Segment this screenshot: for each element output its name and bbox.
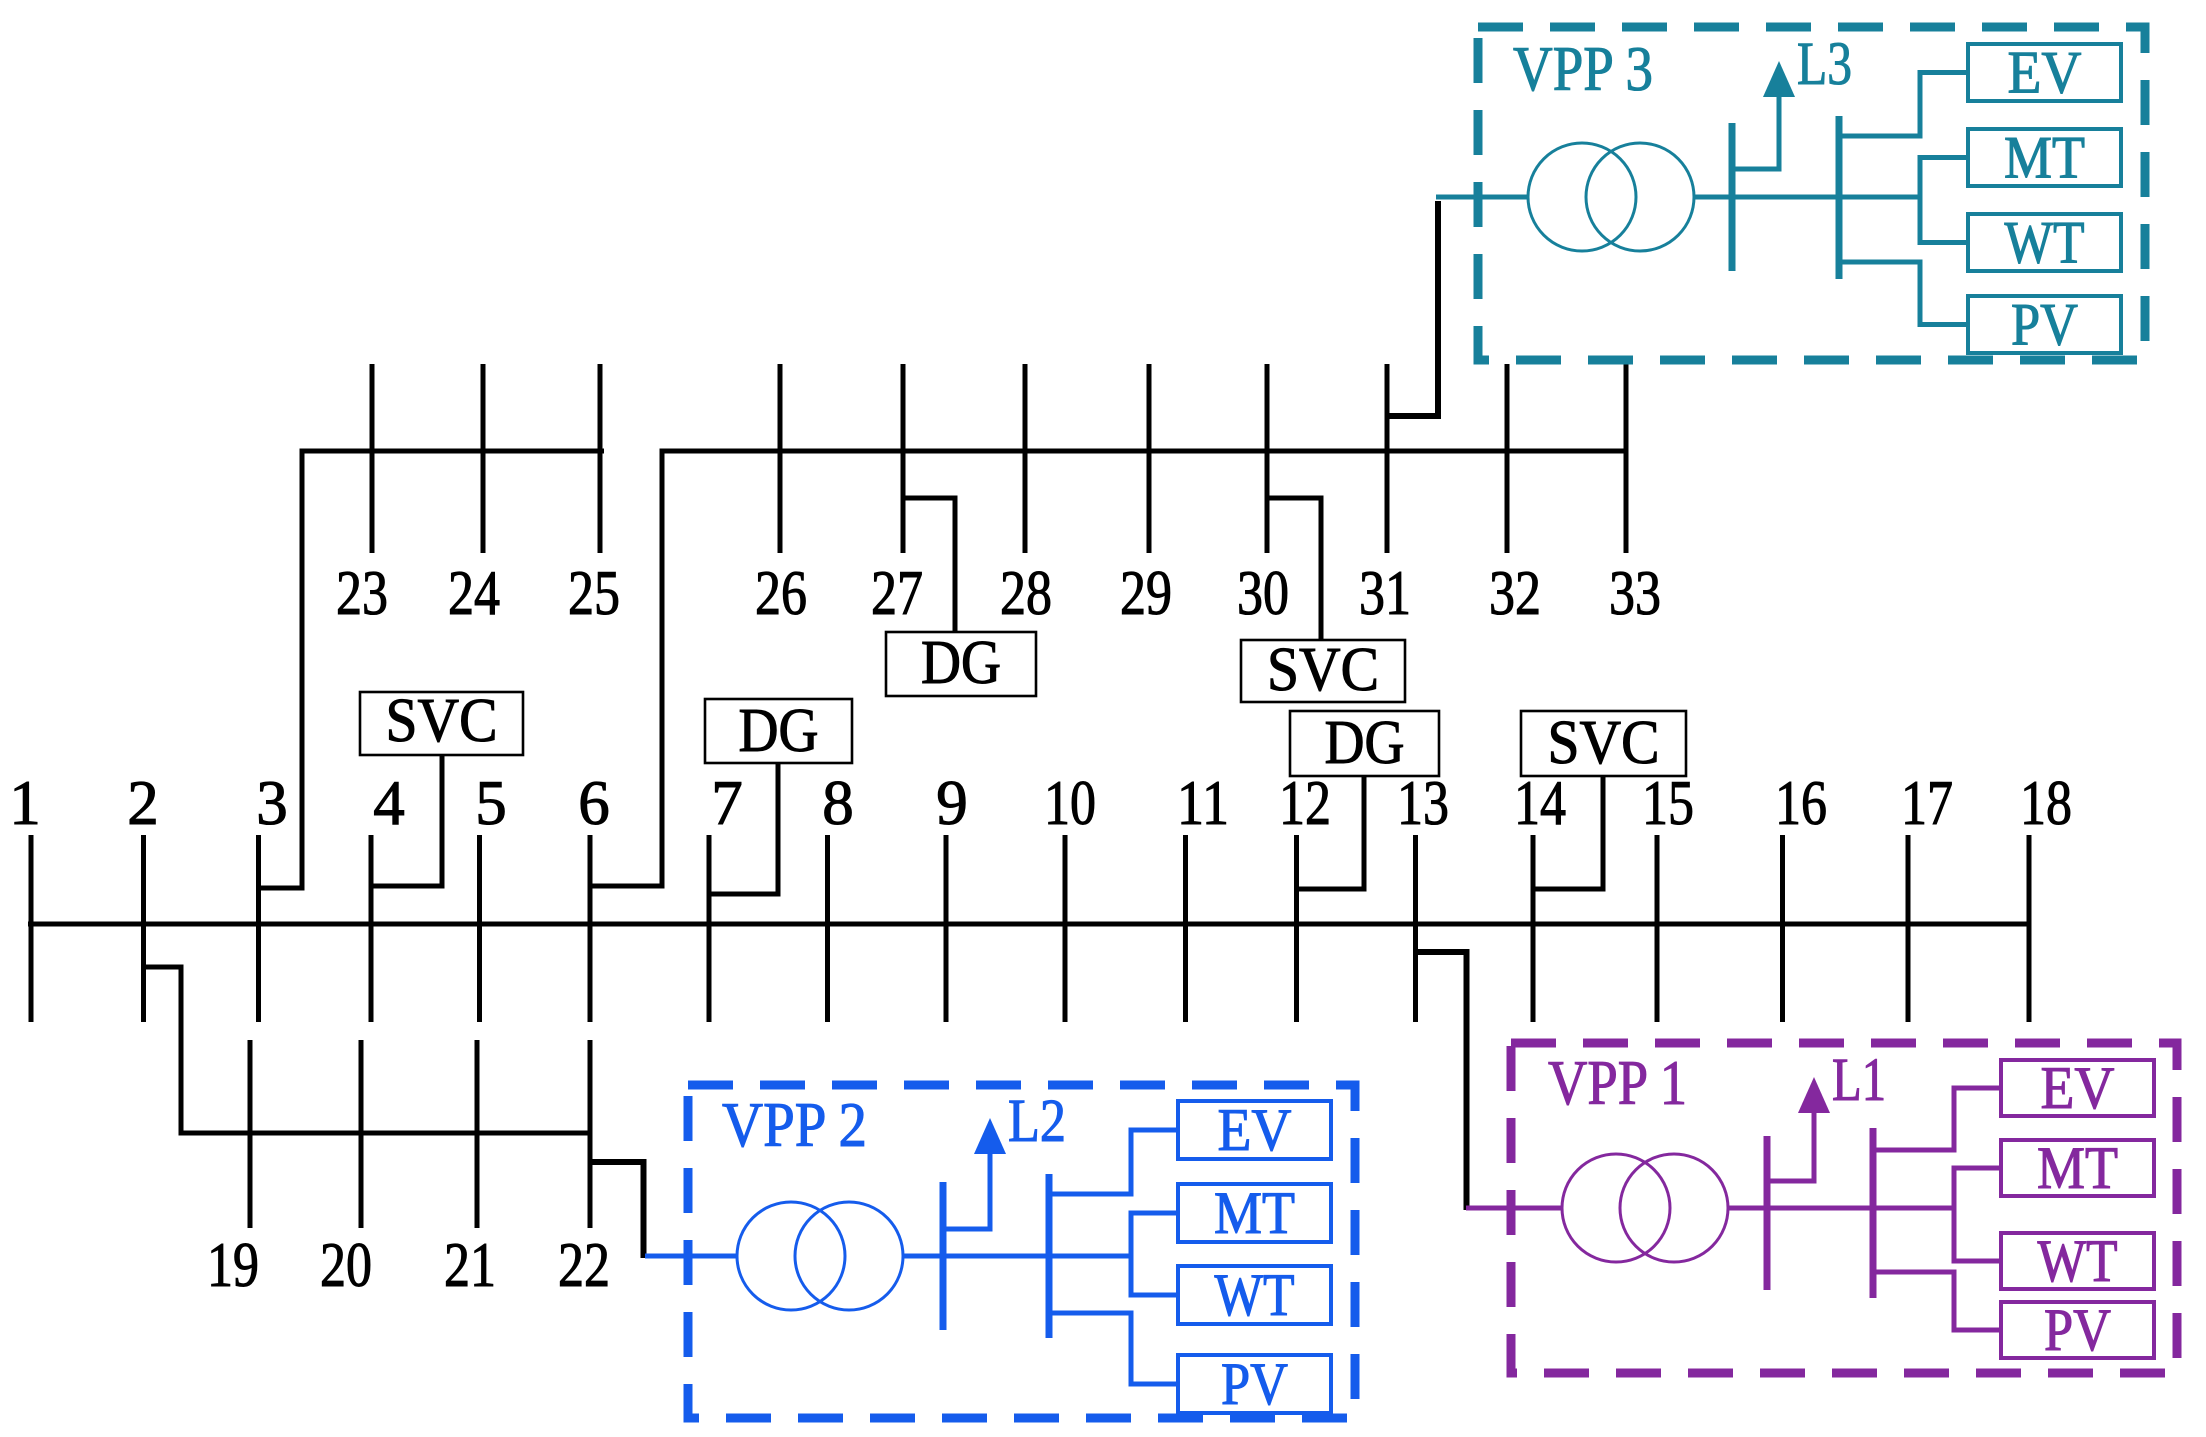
load L2 arrow [974, 1118, 1006, 1154]
wire bus 3 to feeder 23-25 [259, 451, 605, 888]
svg-text:11: 11 [1177, 768, 1229, 838]
transformer T2 primary winding [737, 1202, 845, 1310]
load L3 stub wire [1732, 97, 1779, 169]
svg-text:PV: PV [1221, 1351, 1288, 1417]
VPP 1 internal wire to feeders [1728, 1206, 1954, 1211]
wire bus 22 to VPP 2 [590, 1162, 644, 1258]
svg-text:12: 12 [1279, 768, 1331, 838]
svg-text:18: 18 [2020, 768, 2072, 838]
svg-text:4: 4 [373, 768, 405, 838]
svg-text:6: 6 [578, 768, 610, 838]
WT box in VPP 2 [1178, 1266, 1331, 1324]
bus 32 [1505, 364, 1510, 553]
bus 22 [588, 1040, 593, 1228]
SVC box at bus 4 [360, 692, 523, 755]
DG box at bus 12 [1290, 711, 1439, 776]
svg-text:5: 5 [475, 768, 507, 838]
VPP 3 bus bar A [1729, 123, 1736, 271]
DG box at bus 27 [886, 632, 1036, 696]
wire bus 2 to feeder 19-22 [144, 967, 593, 1133]
bus 16 [1780, 835, 1785, 1022]
svg-text:DG: DG [921, 629, 1001, 697]
svg-text:29: 29 [1120, 558, 1172, 628]
svg-text:WT: WT [2038, 1228, 2118, 1294]
VPP 3 bus bar B [1836, 116, 1843, 279]
transformer T3 primary winding [1528, 143, 1636, 251]
bus 23 [370, 364, 375, 553]
bus 6 [588, 835, 593, 1022]
svg-text:DG: DG [1325, 709, 1405, 777]
bus 1 [29, 835, 34, 1022]
VPP 1 bus bar A [1764, 1136, 1771, 1290]
svg-text:10: 10 [1044, 768, 1096, 838]
svg-text:30: 30 [1237, 558, 1289, 628]
svg-text:33: 33 [1609, 558, 1661, 628]
wire bus 30 to SVC [1267, 498, 1321, 640]
MT box in VPP 2 [1178, 1184, 1331, 1242]
main bus feeder line buses 1-18 [28, 922, 2031, 927]
VPP 2 internal wire to feeders [903, 1254, 1131, 1259]
svg-text:25: 25 [568, 558, 620, 628]
wire bus 4 to SVC [371, 755, 442, 886]
wire bus bar B to PV [1839, 262, 1968, 325]
svg-text:EV: EV [1218, 1097, 1292, 1163]
wire to MT and WT [1954, 1168, 2002, 1261]
MT box in VPP 1 [2001, 1140, 2154, 1196]
load L1 arrow [1798, 1077, 1830, 1113]
DG box at bus 7 [705, 699, 852, 763]
wire bus 14 to SVC [1533, 776, 1603, 889]
WT box in VPP 3 [1968, 214, 2121, 271]
svg-text:WT: WT [2005, 210, 2085, 276]
wire bus 7 to DG [709, 763, 778, 894]
bus 10 [1063, 835, 1068, 1022]
bus 26 [778, 364, 783, 553]
bus 31 [1385, 364, 1390, 553]
svg-text:7: 7 [711, 768, 743, 838]
wire bus 6 to feeder 26-33 [590, 451, 1628, 886]
bus 8 [825, 835, 830, 1022]
VPP 2 bus bar B [1046, 1174, 1053, 1338]
svg-text:26: 26 [755, 558, 807, 628]
svg-text:22: 22 [558, 1230, 610, 1300]
VPP 3 incoming wire [1436, 195, 1528, 200]
WT box in VPP 1 [2001, 1233, 2154, 1289]
bus 13 [1413, 835, 1418, 1022]
svg-text:SVC: SVC [386, 687, 498, 755]
svg-text:DG: DG [739, 697, 819, 765]
bus 11 [1183, 835, 1188, 1022]
PV box in VPP 3 [1968, 296, 2121, 353]
wire bus bar B to PV [1873, 1272, 2001, 1330]
bus 19 [248, 1040, 253, 1228]
svg-text:1: 1 [9, 768, 41, 838]
wire bus 12 to DG [1297, 776, 1365, 889]
svg-text:19: 19 [207, 1230, 259, 1300]
svg-text:MT: MT [2037, 1135, 2118, 1201]
svg-text:L2: L2 [1008, 1088, 1066, 1155]
transformer T2 secondary winding [795, 1202, 903, 1310]
svg-text:L3: L3 [1797, 31, 1852, 98]
svg-text:EV: EV [2041, 1055, 2115, 1121]
svg-text:20: 20 [320, 1230, 372, 1300]
wire to MT and WT [1920, 158, 1969, 243]
svg-text:2: 2 [127, 768, 159, 838]
svg-text:PV: PV [2044, 1297, 2111, 1363]
svg-text:WT: WT [1215, 1262, 1295, 1328]
wire bus 27 to DG [903, 498, 955, 632]
svg-text:28: 28 [1000, 558, 1052, 628]
MT box in VPP 3 [1968, 129, 2121, 186]
VPP 1 incoming wire [1466, 1206, 1562, 1211]
PV box in VPP 2 [1178, 1355, 1331, 1413]
svg-text:24: 24 [448, 558, 500, 628]
EV box in VPP 1 [2001, 1060, 2154, 1116]
svg-text:3: 3 [256, 768, 288, 838]
bus 27 [901, 364, 906, 553]
svg-text:SVC: SVC [1548, 709, 1660, 777]
svg-text:SVC: SVC [1267, 636, 1379, 704]
bus 20 [359, 1040, 364, 1228]
svg-text:EV: EV [2008, 40, 2082, 106]
load L3 arrow [1763, 61, 1795, 97]
VPP 3 dashed boundary [1478, 27, 2145, 360]
bus 9 [944, 835, 949, 1022]
wire bus 13 to VPP 1 [1416, 952, 1467, 1210]
wire bus bar B to EV [1049, 1130, 1178, 1194]
svg-text:17: 17 [1901, 768, 1953, 838]
wire bus bar B to PV [1049, 1313, 1178, 1384]
bus 30 [1265, 364, 1270, 553]
transformer T3 secondary winding [1586, 143, 1694, 251]
VPP 1 dashed boundary [1511, 1043, 2177, 1373]
bus 33 [1624, 364, 1629, 553]
svg-text:MT: MT [1214, 1180, 1295, 1246]
svg-text:8: 8 [822, 768, 854, 838]
svg-text:23: 23 [336, 558, 388, 628]
transformer T1 secondary winding [1620, 1154, 1728, 1262]
bus 24 [481, 364, 486, 553]
bus 14 [1531, 835, 1536, 1022]
SVC box at bus 30 [1241, 640, 1405, 702]
svg-text:31: 31 [1359, 558, 1411, 628]
svg-text:16: 16 [1775, 768, 1827, 838]
bus 4 [369, 835, 374, 1022]
svg-text:32: 32 [1489, 558, 1541, 628]
svg-text:L1: L1 [1832, 1047, 1886, 1114]
bus 2 [141, 835, 146, 1022]
svg-text:14: 14 [1514, 768, 1566, 838]
EV box in VPP 2 [1178, 1101, 1331, 1159]
svg-text:9: 9 [936, 768, 968, 838]
VPP 3 internal wire to feeders [1694, 195, 1920, 200]
EV box in VPP 3 [1968, 44, 2121, 101]
VPP 2 bus bar A [940, 1182, 947, 1330]
load L2 stub wire [943, 1154, 990, 1229]
SVC box at bus 14 [1521, 711, 1686, 776]
svg-text:15: 15 [1642, 768, 1694, 838]
wire to MT and WT [1131, 1213, 1179, 1295]
VPP 2 dashed boundary [688, 1085, 1355, 1418]
bus 15 [1655, 835, 1660, 1022]
bus 7 [707, 835, 712, 1022]
bus 29 [1147, 364, 1152, 553]
svg-text:MT: MT [2004, 125, 2085, 191]
PV box in VPP 1 [2001, 1302, 2154, 1358]
svg-text:VPP 1: VPP 1 [1548, 1048, 1687, 1118]
VPP 2 incoming wire [645, 1254, 737, 1259]
svg-text:VPP 3: VPP 3 [1513, 34, 1653, 104]
wire bus bar B to EV [1873, 1088, 2001, 1150]
bus 28 [1023, 364, 1028, 553]
wire bus 31 to VPP 3 [1387, 201, 1438, 416]
bus 18 [2027, 835, 2032, 1022]
bus 25 [598, 364, 603, 553]
load L1 stub wire [1767, 1113, 1814, 1181]
svg-text:13: 13 [1397, 768, 1449, 838]
VPP 1 bus bar B [1870, 1128, 1877, 1298]
svg-text:VPP 2: VPP 2 [722, 1090, 867, 1160]
bus 12 [1294, 835, 1299, 1022]
svg-text:27: 27 [871, 558, 923, 628]
bus 17 [1906, 835, 1911, 1022]
svg-text:21: 21 [444, 1230, 496, 1300]
bus 3 [256, 835, 261, 1022]
bus 5 [477, 835, 482, 1022]
wire bus bar B to EV [1839, 73, 1968, 137]
transformer T1 primary winding [1562, 1154, 1670, 1262]
bus 21 [475, 1040, 480, 1228]
svg-text:PV: PV [2011, 292, 2078, 358]
